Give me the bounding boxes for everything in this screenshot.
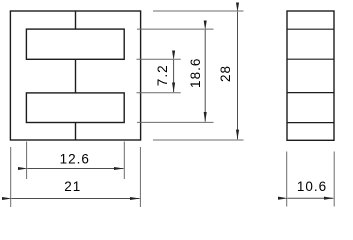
center leg line middle segment: [75, 59, 77, 93]
dimension line 18.6: [204, 30, 206, 122]
dimension line 21: [12, 198, 140, 200]
front view window 2 (bottom slot): [26, 93, 124, 123]
extension line right of 21: [139, 147, 141, 207]
svg-text:12.6: 12.6: [60, 151, 90, 166]
dimension line 28: [237, 12, 239, 139]
extension line right of 10.6: [333, 152, 335, 207]
svg-text:21: 21: [64, 179, 81, 194]
dimension line 7.2: [173, 60, 175, 92]
svg-text:18.6: 18.6: [188, 58, 203, 88]
side view lamination line 4: [287, 122, 334, 124]
svg-text:28: 28: [218, 65, 233, 82]
dimension line 12.6: [27, 168, 123, 170]
extension line top of 28: [153, 10, 244, 12]
extension line bottom of 18.6: [137, 121, 214, 123]
svg-text:10.6: 10.6: [297, 179, 327, 194]
side view lamination line 1: [287, 28, 334, 30]
extension line left of 10.6: [286, 152, 288, 207]
extension line bottom of 28: [153, 139, 244, 141]
extension line left of 12.6: [26, 142, 28, 180]
side view lamination line 3: [287, 92, 334, 94]
extension line right of 12.6: [123, 142, 125, 180]
front view window 1 (top slot): [26, 29, 124, 59]
center leg line top segment: [75, 11, 77, 29]
dimension line 10.6: [288, 197, 334, 199]
extension line left of 21: [10, 147, 12, 207]
front view outer outline: [10, 11, 140, 140]
svg-text:7.2: 7.2: [155, 64, 170, 86]
extension line top of 7.2: [137, 58, 181, 60]
center leg line bottom segment: [75, 123, 77, 141]
side view outline: [287, 11, 334, 140]
extension line top of 18.6: [137, 28, 214, 30]
extension line bottom of 7.2: [137, 92, 181, 94]
side view lamination line 2: [287, 58, 334, 60]
